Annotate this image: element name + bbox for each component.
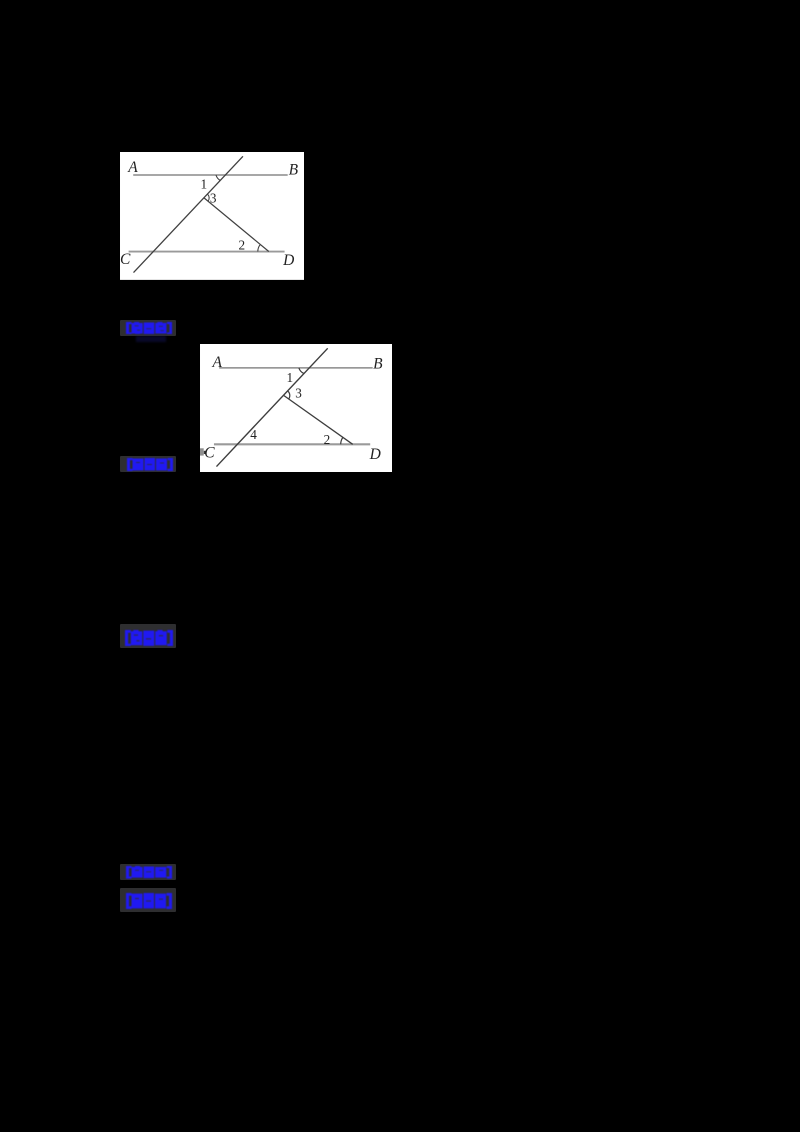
transversal line xyxy=(133,156,242,272)
transversal line xyxy=(216,348,327,466)
angle 2 arc xyxy=(340,437,342,444)
angle 2 arc xyxy=(258,244,260,251)
svg-text:D: D xyxy=(282,251,294,268)
line AB xyxy=(219,367,372,369)
svg-text:1: 1 xyxy=(200,176,207,191)
svg-text:C: C xyxy=(120,250,131,267)
svg-text:C: C xyxy=(204,444,215,461)
segment from vertex 3 to CD xyxy=(204,198,269,252)
angle 3 arc xyxy=(207,194,209,201)
segment from vertex 3 to CD xyxy=(284,395,353,444)
blue tag 5 xyxy=(120,888,176,912)
blue tag 4 xyxy=(120,864,176,880)
blue tag 2 xyxy=(120,456,176,472)
line CD xyxy=(214,443,370,445)
svg-text:B: B xyxy=(373,355,383,372)
figure 1: parallel lines AB, CD with transversal xyxy=(120,152,304,280)
angle 1 arc xyxy=(216,175,220,180)
line AB xyxy=(133,174,287,176)
svg-text:A: A xyxy=(127,158,138,175)
white figure background xyxy=(120,152,304,280)
line CD xyxy=(128,250,284,252)
svg-text:2: 2 xyxy=(323,432,330,447)
white figure background xyxy=(200,344,392,472)
svg-text:A: A xyxy=(211,354,222,371)
blue tag 1 xyxy=(120,320,176,337)
svg-text:B: B xyxy=(288,161,298,178)
figure 2: parallel lines AB, CD with transversal, angle 4 xyxy=(200,344,393,472)
svg-text:D: D xyxy=(368,445,380,462)
angle 1 arc xyxy=(299,368,304,373)
svg-text:3: 3 xyxy=(295,385,302,400)
picture handle square xyxy=(200,448,204,455)
svg-text:2: 2 xyxy=(238,237,245,252)
angle 3 arc xyxy=(288,391,290,399)
svg-text:4: 4 xyxy=(250,427,257,442)
blue tag 3 xyxy=(120,624,176,648)
svg-text:3: 3 xyxy=(210,190,217,205)
svg-text:1: 1 xyxy=(286,370,293,385)
